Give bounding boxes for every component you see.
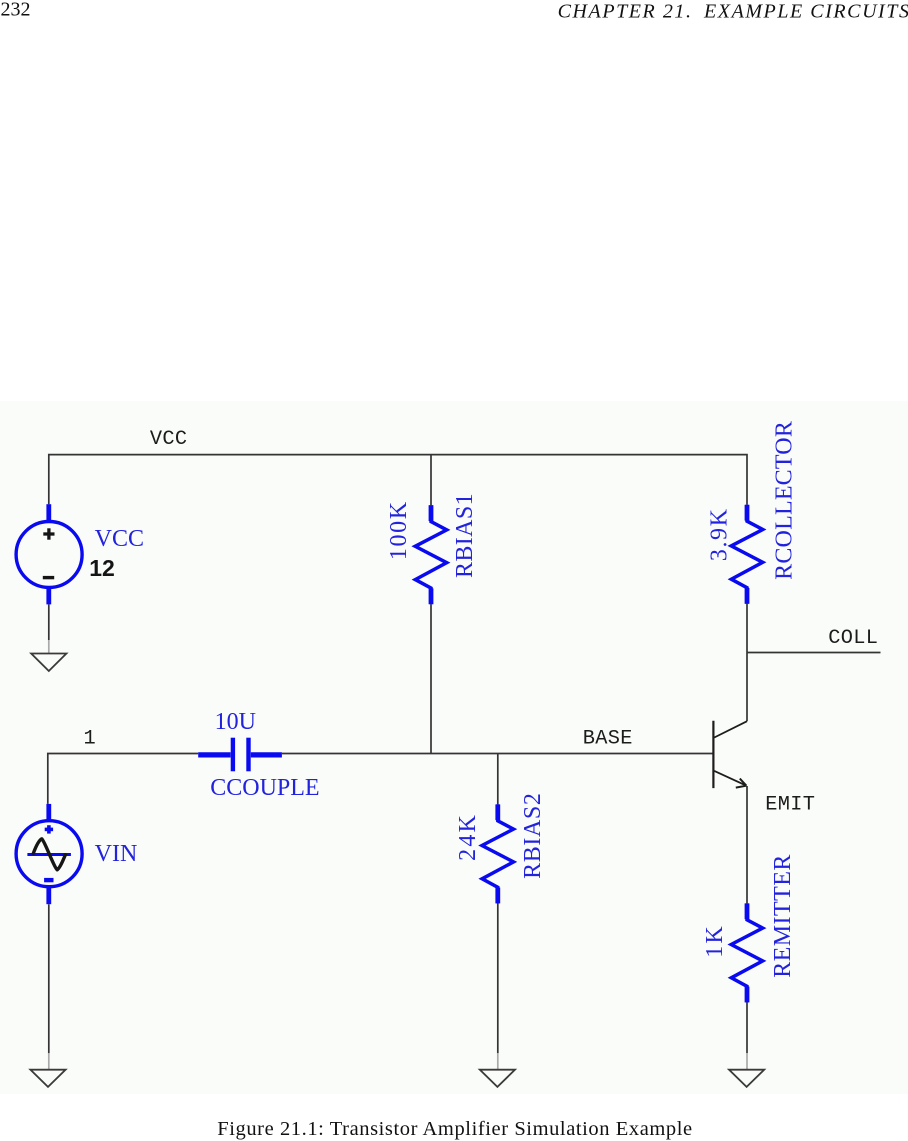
svg-text:CCOUPLE: CCOUPLE	[210, 775, 319, 801]
svg-text:REMITTER: REMITTER	[770, 854, 796, 978]
svg-text:BASE: BASE	[583, 727, 633, 750]
svg-text:VCC: VCC	[95, 526, 144, 552]
svg-text:VCC: VCC	[150, 428, 188, 451]
svg-text:RBIAS2: RBIAS2	[520, 793, 546, 879]
svg-text:1K: 1K	[702, 924, 728, 958]
svg-text:EMIT: EMIT	[765, 793, 815, 816]
svg-text:100K: 100K	[386, 500, 412, 560]
svg-text:CHAPTER 21. EXAMPLE CIRCUITS: CHAPTER 21. EXAMPLE CIRCUITS	[558, 1, 908, 23]
svg-text:Figure 21.1: Transistor Amplif: Figure 21.1: Transistor Amplifier Simula…	[217, 1118, 692, 1140]
svg-text:3.9K: 3.9K	[707, 508, 733, 562]
svg-text:VIN: VIN	[95, 841, 138, 867]
svg-text:1: 1	[84, 727, 97, 750]
svg-text:COLL: COLL	[828, 627, 878, 650]
svg-text:RBIAS1: RBIAS1	[452, 493, 478, 578]
svg-text:24K: 24K	[455, 813, 481, 861]
svg-text:10U: 10U	[215, 709, 256, 735]
svg-text:232: 232	[1, 0, 31, 20]
svg-text:RCOLLECTOR: RCOLLECTOR	[772, 421, 798, 580]
svg-text:12: 12	[89, 555, 115, 581]
